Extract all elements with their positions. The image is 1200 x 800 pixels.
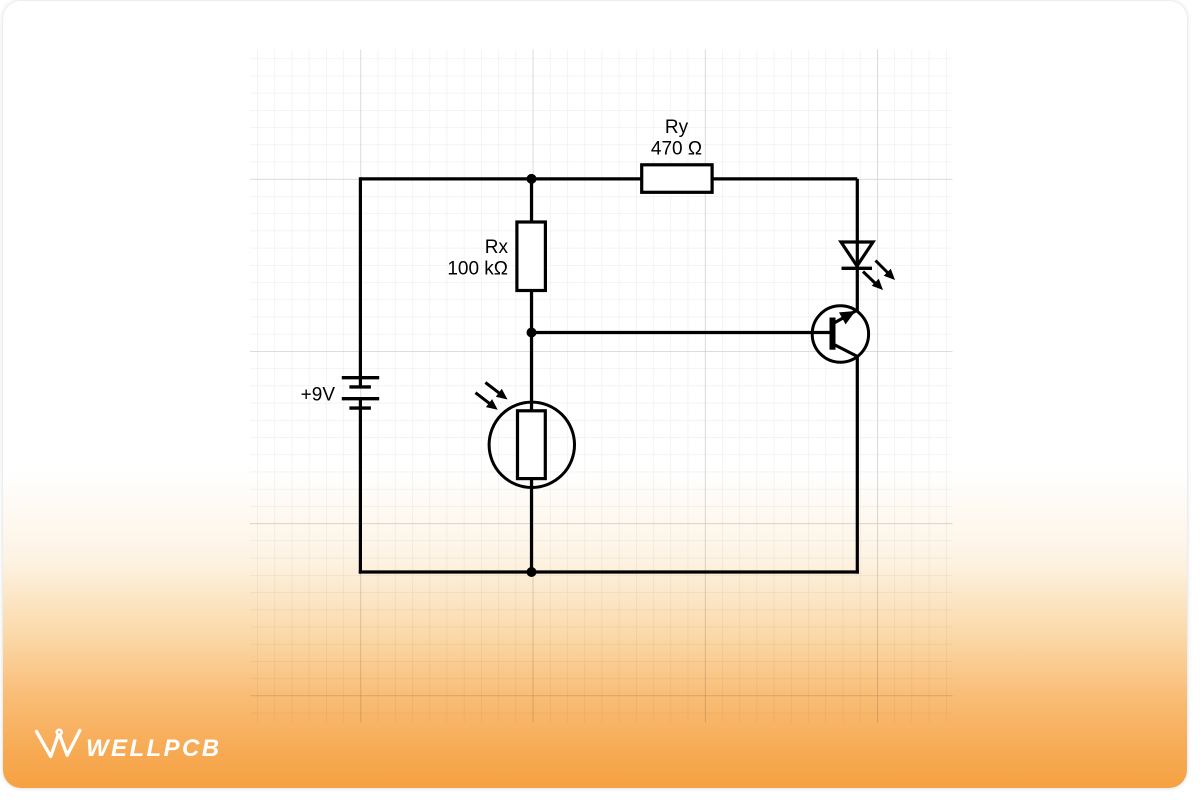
node A (top rail / Rx junction) [527,174,537,184]
wire top rail from battery top to LED branch [360,177,857,180]
wire Rx to base node [530,290,533,334]
battery B1 [342,378,379,408]
transistor Q1 [812,306,868,362]
LED emission arrows [863,261,895,291]
node C (bottom rail junction) [527,567,537,577]
wire left upper (battery plus lead) [359,177,362,386]
wire LDR to bottom rail [530,478,533,574]
wire right upper (top rail through LED to transistor) [856,179,859,311]
wire base node to LDR [530,333,533,413]
schematic grid background [250,50,953,723]
LED D1 [841,242,873,268]
resistor Ry [642,165,712,193]
wire left lower (battery minus lead) [359,399,362,574]
wire base horizontal (node B to Q1 base) [532,331,831,334]
WELLPCB wordmark [86,735,221,763]
photoresistor LDR [489,402,574,487]
LDR light arrows [476,383,508,410]
node B (Rx / LDR / base junction) [527,328,537,338]
wire transistor emitter to bottom rail [856,356,859,574]
wire middle branch top (top rail to Rx) [530,179,533,223]
wire bottom rail [359,570,859,573]
resistor Rx [517,222,546,291]
